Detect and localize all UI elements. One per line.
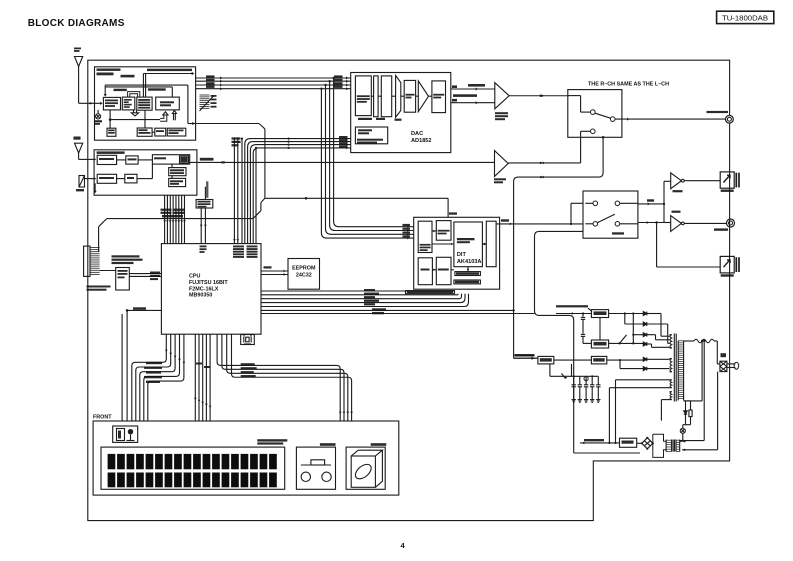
svg-text:FUJITSU 16BIT: FUJITSU 16BIT — [189, 280, 228, 286]
svg-text:DIT: DIT — [457, 252, 467, 258]
svg-text:EEPROM: EEPROM — [292, 265, 316, 271]
svg-text:TU-1800DAB: TU-1800DAB — [722, 13, 768, 22]
svg-text:24C32: 24C32 — [296, 273, 312, 279]
svg-text:AD1852: AD1852 — [411, 138, 432, 144]
svg-text:AK4103A: AK4103A — [457, 259, 482, 265]
svg-text:THE R–CH SAME AS THE L–CH: THE R–CH SAME AS THE L–CH — [588, 81, 669, 87]
svg-text:DAC: DAC — [411, 131, 423, 137]
svg-text:CPU: CPU — [189, 274, 200, 280]
svg-text:MB90350: MB90350 — [189, 293, 212, 299]
svg-text:BLOCK DIAGRAMS: BLOCK DIAGRAMS — [28, 18, 125, 29]
svg-text:F2MC-16LX: F2MC-16LX — [189, 286, 219, 292]
svg-text:FRONT: FRONT — [93, 414, 112, 420]
